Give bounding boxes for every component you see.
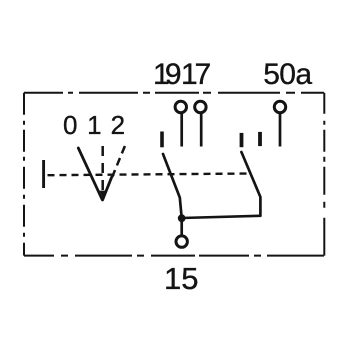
- enclosure box top edge (dash-dot): [24, 92, 324, 94]
- actuator dashed linkage line: [48, 174, 252, 176]
- actuator key contact bar: [42, 160, 45, 188]
- terminal 50a stem wire: [279, 114, 282, 147]
- selector position 2 arm upper dashed segment: [112, 146, 125, 177]
- svg-text:15: 15: [164, 261, 198, 296]
- selector position 1 arrowhead: [100, 191, 106, 198]
- enclosure box right edge (dash-dot): [323, 93, 325, 256]
- svg-text:17: 17: [181, 58, 211, 91]
- switch 2 fixed contact bar right: [258, 132, 262, 146]
- wire from junction to switch 2 arm: [182, 216, 261, 218]
- switch 2 fixed contact bar left: [240, 133, 244, 147]
- svg-text:1: 1: [87, 110, 101, 140]
- terminal 15 stem wire: [180, 218, 183, 235]
- terminal circle 15: [176, 236, 187, 247]
- terminal circle 19: [175, 101, 186, 112]
- svg-text:0: 0: [63, 110, 77, 140]
- enclosure box bottom edge (dash-dot): [24, 255, 324, 257]
- enclosure box left edge (dash-dot): [23, 93, 25, 256]
- switch 2 movable arm: [241, 152, 260, 216]
- svg-text:50a: 50a: [263, 58, 312, 91]
- junction node dot: [178, 214, 186, 222]
- switch 1 movable arm: [163, 154, 182, 218]
- svg-text:2: 2: [111, 110, 125, 140]
- selector position 2 arm lower solid segment: [103, 177, 112, 200]
- terminal circle 17: [195, 101, 206, 112]
- terminal 17 stem wire: [200, 114, 203, 147]
- svg-text:19: 19: [153, 58, 182, 91]
- selector position 0 arm (solid): [78, 148, 102, 200]
- terminal circle 50a: [274, 101, 285, 112]
- terminal 19 stem wire: [180, 114, 183, 147]
- switch 1 fixed contact bar: [160, 132, 164, 148]
- selector position 1 dashed line: [101, 146, 104, 190]
